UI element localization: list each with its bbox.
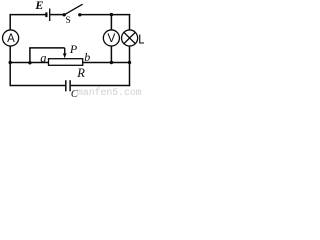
svg-text:E: E [34,0,43,12]
svg-text:b: b [84,50,90,64]
wire middle rail right (rheostat b to right rail) [83,62,130,64]
wire left rail upper (corner to ammeter) [9,14,11,30]
svg-text:A: A [7,33,15,45]
wire left rail lower (ammeter to bottom corner) [9,46,11,86]
wire voltmeter drop (top rail to V) [110,15,112,30]
node junction dot on top rail at voltmeter branch [110,13,113,16]
battery E [34,0,49,21]
slider P (wiper arrow) [63,42,78,58]
rheostat R (resistor box) [49,59,86,80]
wire right rail upper (top corner to lamp) [129,14,131,30]
node junction dot voltmeter / middle rail [110,61,113,64]
wire middle rail left (left rail to rheostat a) [10,62,48,64]
node junction dot middle rail / right rail [128,61,131,64]
wire battery to switch [50,14,64,16]
lamp L [122,30,146,47]
svg-text:L: L [138,33,144,47]
wire right rail lower (lamp to bottom corner) [129,46,131,86]
svg-text:S: S [66,16,71,26]
wire switch to top-right corner [80,14,130,16]
node junction dot left rail / middle rail [9,61,12,64]
ammeter A [3,30,19,46]
capacitor C [66,80,79,100]
wire bottom rail left (to capacitor) [10,85,65,87]
svg-text:manfen5.com: manfen5.com [77,87,142,97]
wire top-left: battery to left rail corner [10,14,45,16]
svg-text:R: R [76,66,85,80]
svg-text:V: V [107,31,115,45]
wire slider jumper horizontal [29,47,64,49]
wire voltmeter to middle rail [110,46,112,62]
voltmeter V [103,30,119,46]
switch S [62,4,82,26]
svg-text:P: P [69,42,78,56]
node junction dot slider jumper / middle rail [28,61,31,64]
svg-text:a: a [40,51,46,65]
wire bottom rail right (capacitor to bottom-right corner) [71,85,131,87]
wire slider jumper vertical [29,48,31,63]
